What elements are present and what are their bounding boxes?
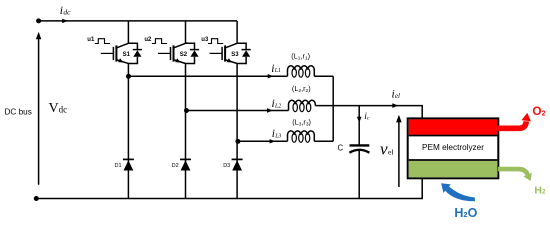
wire leg 2 collector drop [185, 21, 187, 44]
node DC bus positive terminal [36, 18, 41, 23]
wire leg 1 collector drop [127, 21, 129, 44]
wire phase 2 [186, 110, 289, 112]
wire after L3 [314, 140, 333, 142]
svg-text:(L2,r2): (L2,r2) [292, 84, 311, 94]
wire bottom rail [36, 178, 422, 199]
voltage arrow v_el [396, 115, 402, 187]
svg-text:S3: S3 [231, 52, 239, 58]
diode S2 antiparallel [186, 43, 200, 63]
diode S1 antiparallel [128, 43, 142, 63]
voltage arrow Vdc [36, 32, 41, 185]
wire phase 1 [128, 75, 287, 77]
wire leg 2 emitter to bottom rail [185, 64, 187, 199]
wire leg 1 emitter to bottom rail [127, 64, 129, 199]
gate pulse symbol u2 [152, 39, 167, 44]
diode D1 [123, 159, 134, 170]
svg-text:D3: D3 [223, 163, 230, 169]
inductor L3 [288, 131, 315, 142]
arrow H2 output [498, 169, 532, 181]
svg-text:D1: D1 [115, 163, 122, 169]
wire after L1 [314, 75, 333, 77]
inductor L2 [289, 100, 316, 111]
current arrow i_L2 [267, 108, 273, 112]
electrolyzer separator line 2 [409, 159, 498, 161]
wire leg 3 emitter to bottom rail [236, 64, 238, 199]
wire inductor summing bus [332, 76, 334, 141]
PEM electrolyzer box [408, 118, 499, 178]
node phase 2 [184, 108, 189, 113]
wire top rail [39, 20, 238, 22]
electrolyzer separator line 1 [409, 135, 498, 137]
arrow O2 output [498, 113, 531, 128]
electrolyzer cathode layer (green) [409, 161, 498, 177]
gate pulse symbol u3 [208, 39, 223, 44]
arrow H2O input [441, 183, 475, 201]
node phase 1 [126, 74, 131, 79]
svg-text:u1: u1 [87, 37, 95, 43]
svg-text:S2: S2 [180, 52, 188, 58]
svg-text:DC bus: DC bus [5, 108, 32, 117]
wire leg 3 collector drop [236, 21, 238, 44]
current arrow i_el [392, 103, 398, 108]
wire capacitor branch bottom [358, 151, 360, 199]
wire phase 3 [237, 140, 287, 142]
svg-text:D2: D2 [172, 163, 179, 169]
inductor L1 [288, 66, 315, 77]
current arrow i_c [357, 117, 362, 123]
svg-text:(L3,r3): (L3,r3) [292, 118, 311, 128]
diode S3 antiparallel [237, 43, 251, 63]
transistor S1 (IGBT) [101, 43, 129, 63]
svg-text:C: C [338, 144, 344, 153]
current arrow i_L3 [270, 139, 276, 143]
svg-text:S1: S1 [123, 52, 131, 58]
node DC bus negative terminal [34, 196, 39, 201]
current arrow i_L1 [268, 74, 274, 78]
svg-text:PEM electrolyzer: PEM electrolyzer [422, 143, 484, 152]
electrolyzer anode layer (red) [409, 119, 498, 134]
svg-text:u3: u3 [201, 37, 209, 43]
svg-text:idc: idc [60, 5, 71, 17]
wire capacitor branch top [358, 106, 360, 145]
diode D2 [180, 159, 191, 170]
svg-text:u2: u2 [144, 37, 152, 43]
current arrow i_dc [62, 19, 68, 23]
transistor S3 (IGBT) [210, 43, 238, 63]
transistor S2 (IGBT) [158, 43, 186, 63]
wire output to electrolyzer [315, 106, 422, 120]
capacitor C [349, 145, 369, 152]
node phase 3 [235, 139, 240, 144]
diode D3 [232, 159, 243, 170]
svg-text:(L1,r1): (L1,r1) [291, 52, 310, 62]
gate pulse symbol u1 [95, 39, 110, 44]
